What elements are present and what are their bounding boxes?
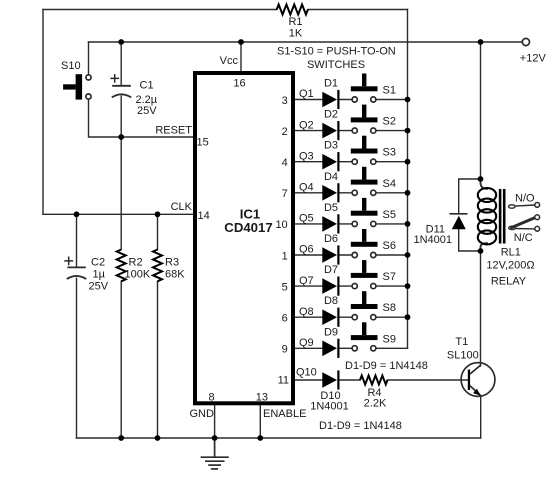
wire ground rail	[77, 437, 481, 439]
svg-text:S6: S6	[383, 240, 396, 252]
junction node	[74, 211, 80, 217]
wire Q5 row	[295, 223, 408, 225]
svg-text:10: 10	[275, 219, 287, 231]
wire Q10 row	[295, 379, 468, 381]
push switch S7	[351, 260, 378, 289]
svg-text:D8: D8	[324, 295, 338, 307]
svg-text:RL1: RL1	[501, 247, 521, 259]
junction node	[118, 39, 124, 45]
junction node	[405, 252, 411, 258]
svg-text:16: 16	[233, 78, 245, 90]
wire C1 top	[120, 42, 122, 86]
svg-text:ENABLE: ENABLE	[263, 408, 306, 420]
svg-text:S4: S4	[383, 178, 396, 190]
wire Q2 row	[295, 130, 408, 132]
svg-text:Q10: Q10	[296, 366, 317, 378]
svg-text:D1-D9 = 1N4148: D1-D9 = 1N4148	[319, 420, 402, 432]
wire +12V rail	[89, 41, 523, 43]
op IC1 CD4017 box	[195, 73, 293, 403]
wire IC pin8 GND	[214, 405, 216, 438]
junction node	[405, 159, 411, 165]
wire relay to collector	[480, 251, 482, 366]
push switch S2	[351, 105, 378, 134]
push switch S4	[351, 167, 378, 196]
diode D1	[322, 90, 338, 109]
svg-text:Q6: Q6	[299, 244, 314, 256]
svg-text:1: 1	[282, 250, 288, 262]
svg-text:13: 13	[256, 391, 268, 403]
svg-text:5: 5	[282, 281, 288, 293]
diode D7	[322, 277, 338, 296]
wire Q7 row	[295, 285, 408, 287]
wire S10 bottom to RESET	[89, 99, 194, 137]
svg-text:S8: S8	[383, 302, 396, 314]
svg-text:S2: S2	[383, 116, 396, 128]
svg-text:2: 2	[282, 126, 288, 138]
junction node	[257, 435, 263, 441]
wire top feedback rail	[43, 9, 408, 11]
svg-text:N/C: N/C	[514, 232, 533, 244]
junction node	[238, 39, 244, 45]
svg-text:Q1: Q1	[299, 88, 314, 100]
svg-text:D1: D1	[324, 78, 338, 90]
svg-text:Q3: Q3	[299, 150, 314, 162]
svg-text:D4: D4	[324, 171, 338, 183]
svg-text:7: 7	[282, 188, 288, 200]
capacitor C2	[64, 257, 86, 280]
svg-text:14: 14	[198, 210, 210, 222]
svg-text:68K: 68K	[165, 268, 185, 280]
svg-text:SL100: SL100	[447, 349, 479, 361]
junction node	[405, 97, 411, 103]
svg-text:S5: S5	[383, 209, 396, 221]
svg-text:15: 15	[197, 136, 209, 148]
svg-text:S9: S9	[383, 333, 396, 345]
relay core	[499, 189, 502, 244]
wire relay top feed	[480, 42, 482, 179]
push switch S8	[351, 291, 378, 320]
push switch S6	[351, 229, 378, 258]
wire D11 branch	[459, 179, 481, 251]
transistor T1	[461, 363, 495, 397]
resistor R1	[277, 5, 308, 15]
wire Q6 row	[295, 254, 408, 256]
junction node	[155, 435, 161, 441]
diode D4	[322, 183, 338, 202]
svg-text:SWITCHES: SWITCHES	[307, 59, 365, 71]
svg-text:D5: D5	[324, 202, 338, 214]
svg-text:+12V: +12V	[520, 52, 547, 64]
svg-text:D7: D7	[324, 264, 338, 276]
svg-text:1N4001: 1N4001	[310, 400, 349, 412]
wire IC pin13 ENABLE	[259, 405, 261, 438]
svg-text:C1: C1	[140, 80, 154, 92]
relay RL1 coil	[478, 188, 496, 244]
resistor R2	[117, 250, 126, 282]
svg-text:11: 11	[278, 375, 289, 387]
svg-text:R3: R3	[165, 256, 179, 268]
diode D8	[322, 308, 338, 327]
diode D9	[322, 339, 338, 358]
junction node	[212, 435, 218, 441]
svg-text:GND: GND	[190, 408, 215, 420]
svg-text:N/O: N/O	[515, 193, 535, 205]
svg-text:Q8: Q8	[299, 306, 314, 318]
svg-text:S1: S1	[383, 85, 396, 97]
svg-text:4: 4	[282, 157, 288, 169]
svg-text:T1: T1	[455, 336, 468, 348]
svg-text:D2: D2	[324, 109, 338, 121]
diode D3	[322, 152, 338, 171]
wire emitter to ground rail	[480, 397, 482, 439]
wire switch common rail	[407, 10, 409, 349]
junction node	[405, 314, 411, 320]
+12V terminal	[522, 38, 529, 45]
wire left vertical (CLK feedback)	[42, 10, 44, 215]
diode D5	[322, 214, 338, 233]
wire R3 branch	[157, 214, 159, 438]
svg-text:D9: D9	[324, 326, 338, 338]
svg-text:Q7: Q7	[299, 275, 314, 287]
junction node	[118, 435, 124, 441]
junction node	[405, 128, 411, 134]
wire Q3 row	[295, 161, 408, 163]
svg-text:9: 9	[282, 344, 288, 356]
ground	[201, 438, 229, 469]
svg-text:100K: 100K	[125, 268, 151, 280]
capacitor C1	[110, 74, 131, 97]
push switch S3	[351, 136, 378, 165]
svg-text:S7: S7	[383, 271, 396, 283]
wire Q1 row	[295, 99, 408, 101]
svg-text:CD4017: CD4017	[224, 220, 272, 235]
wire R2 branch	[120, 137, 122, 438]
svg-text:Q4: Q4	[299, 182, 314, 194]
svg-text:RELAY: RELAY	[491, 276, 527, 288]
svg-text:S1-S10 = PUSH-TO-ON: S1-S10 = PUSH-TO-ON	[277, 46, 396, 58]
svg-text:6: 6	[282, 313, 288, 325]
svg-text:12V,200Ω: 12V,200Ω	[486, 260, 534, 272]
svg-text:1K: 1K	[289, 28, 303, 40]
svg-text:1N4001: 1N4001	[413, 234, 452, 246]
junction node	[405, 221, 411, 227]
wire relay coil hooks	[481, 179, 488, 251]
junction node	[405, 283, 411, 289]
svg-text:CLK: CLK	[171, 201, 193, 213]
junction node	[118, 134, 124, 140]
wire C1 bottom	[120, 96, 122, 137]
svg-text:D6: D6	[324, 233, 338, 245]
diode D6	[322, 245, 338, 264]
wire Vcc pin 16	[240, 42, 242, 71]
svg-text:8: 8	[208, 391, 214, 403]
wire C2 branch	[76, 214, 78, 438]
push switch S5	[351, 198, 378, 227]
svg-text:R2: R2	[129, 256, 143, 268]
junction node	[478, 248, 484, 254]
svg-text:Q5: Q5	[299, 213, 314, 225]
svg-text:RESET: RESET	[155, 125, 192, 137]
svg-text:2.2K: 2.2K	[364, 398, 387, 410]
junction node	[405, 190, 411, 196]
push switch S1	[351, 74, 378, 103]
push switch S10	[63, 74, 91, 99]
svg-text:25V: 25V	[89, 280, 109, 292]
svg-text:1µ: 1µ	[93, 268, 106, 280]
wire Q8 row	[295, 316, 408, 318]
svg-text:Q2: Q2	[299, 119, 314, 131]
svg-text:3: 3	[282, 95, 288, 107]
junction node	[155, 211, 161, 217]
diode D11	[450, 214, 468, 230]
svg-text:D1-D9 = 1N4148: D1-D9 = 1N4148	[345, 360, 428, 372]
push switch S9	[351, 322, 378, 351]
junction node	[478, 176, 484, 182]
resistor R3	[153, 250, 162, 282]
resistor R4	[360, 376, 388, 385]
svg-text:R1: R1	[288, 16, 302, 28]
svg-text:D3: D3	[324, 140, 338, 152]
svg-text:S3: S3	[383, 147, 396, 159]
svg-text:25V: 25V	[137, 105, 157, 117]
wire Q9 row	[295, 347, 408, 349]
wire Q4 row	[295, 192, 408, 194]
wire CLK to IC	[43, 213, 193, 215]
wire S10 top	[88, 42, 90, 75]
diode D10	[322, 370, 338, 389]
relay contacts	[509, 203, 540, 232]
svg-text:Q9: Q9	[299, 337, 314, 349]
diode D2	[322, 121, 338, 140]
svg-text:C2: C2	[91, 256, 105, 268]
junction node	[478, 39, 484, 45]
svg-text:Vcc: Vcc	[220, 55, 239, 67]
svg-text:S10: S10	[61, 60, 81, 72]
